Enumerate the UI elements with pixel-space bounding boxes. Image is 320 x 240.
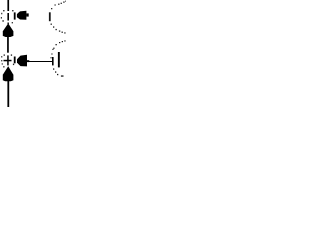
diode D2 triangle <box>17 55 27 67</box>
diode D1 lead stub <box>26 13 28 16</box>
lower dashed highlight circle (partial) <box>51 40 66 76</box>
diode D1 triangle <box>17 11 27 20</box>
wire top vertical <box>7 0 9 11</box>
wire bottom vertical <box>7 81 9 107</box>
battery plate long <box>58 52 60 67</box>
plus polarity marker <box>4 60 12 62</box>
current arrow A2 head <box>3 66 14 81</box>
node N1 dashed circle <box>1 10 14 24</box>
upper dashed highlight circle (partial) <box>49 1 66 34</box>
battery plate short <box>52 57 54 65</box>
node N2 dashed circle <box>1 54 14 67</box>
diode D2 cathode bar <box>14 57 16 64</box>
current arrow A1 head <box>3 23 14 37</box>
wire mid vertical <box>7 37 9 53</box>
diode D1 cathode bar <box>14 12 16 19</box>
current-source arrow shaft inside N1 <box>7 13 9 21</box>
wire horizontal <box>27 60 29 62</box>
